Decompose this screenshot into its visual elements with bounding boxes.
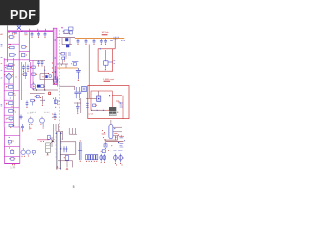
node ground GND1 — [12, 164, 13, 165]
resistor R17 — [93, 104, 96, 107]
wire rail left — [3, 58, 5, 127]
resistor R0 — [10, 36, 14, 39]
net label E1 — [1, 57, 3, 59]
PDF badge — [0, 0, 40, 25]
wire down3 — [58, 124, 60, 131]
cell specks — [5, 86, 8, 89]
resistor R11 — [32, 151, 35, 153]
resistor R12 — [64, 30, 68, 33]
net label ACN — [1, 44, 3, 46]
band taps — [52, 63, 53, 64]
wire rung 9 — [4, 121, 13, 123]
net marks reg — [120, 143, 124, 145]
capacitor C21 — [78, 142, 80, 160]
capacitor C10 — [22, 124, 24, 126]
net label conn — [114, 149, 117, 151]
wire rung 6 — [4, 99, 13, 101]
thermistor TH1 — [9, 64, 13, 67]
wire dots row — [91, 109, 106, 111]
wire red tail — [113, 48, 116, 50]
wire partition — [122, 96, 124, 119]
wire branch top — [30, 59, 33, 61]
resistor R21 — [72, 60, 78, 62]
node ground GND3 — [57, 166, 58, 167]
wire red link — [88, 45, 90, 86]
diode D3 — [9, 124, 13, 127]
bridge rectifier D1 — [17, 26, 21, 30]
capacitor CX2 — [38, 32, 40, 33]
mosfet Q4 heatsink — [46, 143, 51, 153]
capacitor CX1 — [31, 32, 33, 33]
inductor LF1 — [24, 32, 28, 34]
wire box rung1 — [4, 145, 19, 147]
diode D2 — [9, 117, 13, 120]
capacitor CB1 — [77, 39, 79, 41]
wire jog — [56, 130, 63, 132]
capacitor C27 — [104, 144, 107, 147]
capacitor CB2 — [85, 39, 87, 41]
wire aux — [57, 63, 68, 65]
wire box rung2 — [4, 155, 19, 157]
table block — [109, 107, 116, 116]
ic U2 marker — [49, 92, 51, 94]
wire drop2 — [69, 38, 71, 45]
diode D8 — [41, 85, 44, 88]
wire box bottom — [4, 163, 19, 165]
label gray xx1 — [27, 112, 33, 114]
wire bus +B — [75, 37, 124, 39]
diode D6 — [66, 44, 69, 47]
annotation box inner — [91, 91, 112, 110]
node ground GND2 — [47, 153, 48, 154]
resistor R1 — [10, 46, 15, 49]
ic U4 — [97, 96, 101, 101]
capacitor C6 — [23, 65, 25, 67]
wire gate v — [55, 66, 57, 80]
diode D10 — [102, 150, 105, 153]
node ground GND4 — [66, 168, 67, 169]
capacitor C32 — [22, 45, 25, 48]
wire cap feed — [33, 59, 45, 61]
wire ctrl v1 — [44, 66, 46, 90]
capacitor C9 — [20, 115, 22, 117]
capacitor C31 — [62, 57, 65, 59]
wire rung extra — [4, 65, 13, 67]
resistor R3 — [9, 93, 13, 96]
capacitor C5 — [9, 85, 13, 88]
svg-text:SP link: SP link — [102, 32, 110, 34]
wire reg h3 — [113, 135, 119, 137]
capacitor C7 — [27, 65, 29, 67]
wire box top — [4, 134, 19, 136]
wire red t2 — [116, 100, 119, 102]
wire h3 — [52, 116, 57, 118]
diode D12 — [49, 75, 51, 77]
capacitor C12 — [69, 27, 73, 30]
bus bar primary — [53, 28, 57, 84]
regulator U5 — [109, 125, 113, 139]
net label +B — [114, 36, 120, 38]
wire rung B — [19, 51, 29, 53]
transformer T1 core — [56, 132, 58, 170]
wire box link — [13, 126, 19, 128]
wire rung ext2 — [13, 107, 19, 109]
wire snub left — [37, 139, 49, 141]
wire maroon in — [86, 97, 97, 99]
resistor R10 — [11, 158, 14, 161]
resistor R14 — [36, 95, 39, 97]
wire AC live bus — [8, 30, 54, 32]
wire red drop — [114, 39, 116, 49]
connector CN4 — [114, 155, 117, 160]
wire stub T2 — [37, 29, 39, 32]
junction J2 — [63, 31, 64, 32]
wire rail mid — [12, 58, 14, 127]
capacitor C16 — [75, 87, 77, 92]
transistor Q2 — [40, 118, 45, 123]
wire bus aux orange — [57, 67, 78, 69]
capacitor C14 — [77, 68, 79, 70]
svg-text:5: 5 — [73, 185, 75, 189]
capacitor C30 — [41, 60, 43, 62]
wire rung ext1 — [13, 90, 19, 92]
wire h4 — [74, 102, 81, 104]
resistor R22 — [7, 66, 11, 69]
svg-text:PDF: PDF — [10, 8, 36, 22]
varistor RV1 — [6, 73, 12, 79]
wire box left rail — [3, 127, 5, 164]
wire rung 4 — [4, 83, 13, 85]
wire sec top — [60, 141, 76, 143]
capacitor CB3 — [93, 39, 95, 41]
diode D11 — [45, 75, 47, 78]
capacitor CB5 — [105, 39, 107, 41]
wire box right rail — [19, 127, 21, 164]
label gray xx3 — [44, 111, 49, 113]
capacitor C20 — [65, 156, 68, 161]
resistor R2 — [10, 54, 15, 57]
diode D9 — [100, 156, 103, 160]
wire vert dark — [80, 98, 82, 113]
wire sec return — [105, 139, 118, 141]
junction J5 — [109, 95, 110, 96]
junction J7 — [60, 148, 61, 149]
resistor R19 — [114, 132, 117, 134]
diode D4 — [8, 140, 11, 143]
wire stub T3 — [44, 29, 46, 32]
capacitor C11 — [9, 148, 10, 149]
wire sec right — [75, 142, 77, 155]
connector CN2 — [21, 150, 25, 154]
wire ctrl h1 — [40, 73, 49, 75]
capacitor row C22-C26 — [86, 155, 88, 160]
fuse F1 — [12, 33, 13, 34]
wire rung snub — [62, 44, 72, 46]
wire sec bot — [60, 153, 76, 155]
wire rail right — [18, 31, 20, 127]
wire down4 — [68, 128, 70, 134]
wire rail mid2 — [21, 62, 23, 100]
plus marks — [119, 135, 124, 137]
resistor R4 — [9, 102, 13, 105]
capacitor C29 — [38, 60, 40, 62]
net label E3 — [1, 62, 3, 64]
wire rail mid4 — [30, 62, 32, 88]
wire primary return — [59, 85, 74, 87]
wire isolation dashed — [59, 30, 61, 131]
wire rail upper-left — [7, 26, 9, 63]
capacitor C8 — [26, 101, 28, 103]
wire stub T1 — [29, 29, 31, 32]
annotation box PSU — [88, 86, 129, 119]
wire rung A — [8, 43, 20, 45]
annotation box SP — [98, 49, 113, 71]
capacitor C19 — [63, 146, 65, 152]
resistor R15 — [55, 97, 57, 104]
capacitor CX3 — [44, 32, 46, 33]
resistor R8 — [32, 73, 36, 75]
label snub red — [43, 141, 44, 142]
optocoupler U3 — [28, 118, 33, 123]
wire rung 5 — [4, 90, 13, 92]
diode D5 — [65, 38, 68, 41]
resistor R5 — [9, 110, 13, 113]
wire down1 — [53, 124, 55, 140]
net label E2 — [1, 104, 3, 106]
diode D7 — [37, 85, 40, 88]
node VCC plus — [61, 27, 63, 29]
snubber cluster — [54, 76, 55, 77]
wire down2 — [55, 124, 57, 131]
wire red t1 — [112, 95, 122, 97]
connector CN5 — [119, 155, 122, 160]
junction J3 — [100, 48, 101, 49]
net marks — [120, 102, 123, 104]
gate parts — [48, 135, 51, 139]
wire ctrl v2 — [39, 74, 41, 80]
junction J4 — [36, 89, 37, 90]
wire rung 7 — [4, 107, 13, 109]
resistor R13 — [61, 52, 64, 55]
capacitor C18 — [77, 102, 79, 106]
wire drop1 — [61, 38, 63, 45]
junction J6 — [56, 133, 57, 134]
svg-text:1-7R: 1-7R — [10, 167, 15, 170]
wire sec gnd — [58, 160, 73, 162]
resistor R9 — [31, 99, 34, 102]
wire reg h2 — [113, 131, 122, 133]
net specks top — [9, 32, 10, 33]
svg-text:1.50R caps: 1.50R caps — [103, 79, 115, 81]
wire rail upper-right — [29, 31, 31, 62]
capacitor C15 — [54, 113, 56, 115]
connector CN3 — [26, 150, 30, 154]
label SP underline — [102, 34, 108, 36]
wire rail mid3 — [24, 62, 26, 79]
wire primary feed — [57, 37, 75, 39]
wire reg h1 — [113, 126, 122, 128]
transformer winding ticks — [55, 136, 57, 138]
wire branch — [32, 60, 34, 90]
wire ctrl h2 — [33, 89, 58, 91]
wire tap — [108, 61, 113, 63]
wire rung 8 — [4, 114, 13, 116]
resistor R20 — [40, 97, 41, 98]
wire rung C — [4, 59, 29, 61]
resistor R7 — [32, 66, 36, 68]
label underline2 — [104, 80, 111, 82]
capacitor C28 — [82, 87, 86, 92]
capacitor C17 — [79, 87, 81, 92]
wire rung 3 — [4, 70, 13, 72]
capacitor CB4 — [100, 39, 102, 41]
transistor Q1 — [31, 84, 36, 89]
resistor R18 — [102, 130, 103, 131]
junction J1 — [55, 39, 56, 40]
resistor R6 — [23, 73, 27, 76]
label gray xx2 — [31, 111, 37, 113]
capacitor C4 — [22, 53, 25, 56]
capacitor C13 — [104, 50, 106, 61]
